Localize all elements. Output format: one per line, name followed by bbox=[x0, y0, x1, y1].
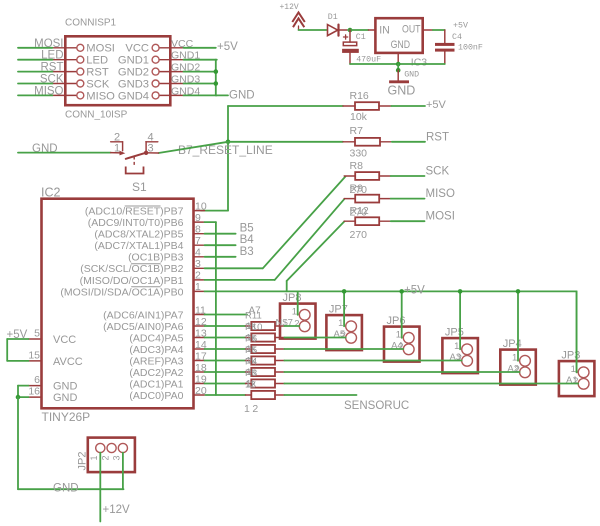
wire PB3 to label B3 bbox=[205, 256, 236, 258]
IC IC2 value label TINY26P bbox=[42, 410, 91, 424]
junction +5V JP7 bbox=[342, 289, 347, 294]
overlap value 1k ghosts bbox=[246, 321, 256, 390]
switch S1 pin number 3 bbox=[148, 143, 154, 155]
svg-text:3: 3 bbox=[112, 455, 122, 460]
capacitor C1 negative plate bbox=[342, 49, 359, 53]
svg-text:(SCK/SCL/OC1B)PB2: (SCK/SCL/OC1B)PB2 bbox=[80, 263, 183, 275]
capacitor C1 bottom lead bbox=[349, 53, 351, 64]
net label +5V (rail) bbox=[404, 284, 425, 296]
connector JP7 pin 1 circle bbox=[346, 321, 357, 332]
svg-text:(MOSI/DI/SDA/OC1A)PB0: (MOSI/DI/SDA/OC1A)PB0 bbox=[60, 286, 183, 298]
svg-text:9: 9 bbox=[195, 212, 201, 224]
small resistor row 7 bbox=[205, 394, 245, 396]
wire diagonal PB2 to R8 bbox=[263, 176, 346, 268]
CONNISP1 pin RST (left) bbox=[52, 68, 83, 75]
wire junction to GND symbol bbox=[397, 64, 399, 70]
wire D1 junction to IC3 IN bbox=[348, 29, 375, 31]
CONNISP1 pin GND4 (right) bbox=[152, 92, 183, 99]
svg-text:S1: S1 bbox=[132, 180, 147, 194]
svg-text:GND1: GND1 bbox=[118, 55, 149, 67]
svg-text:GND1: GND1 bbox=[171, 50, 200, 62]
IC2 pin 13 (ADC4)PA5 bbox=[129, 327, 206, 344]
connector JP5 pin 1 circle bbox=[462, 344, 473, 355]
IC2 pin 6 GND bbox=[29, 374, 78, 393]
net label GND1 bbox=[171, 50, 200, 62]
svg-text:+5V: +5V bbox=[404, 284, 425, 296]
svg-text:(ADC0)PA0: (ADC0)PA0 bbox=[129, 390, 183, 402]
connector JP5 pin number 1 bbox=[454, 341, 459, 352]
svg-text:1: 1 bbox=[396, 330, 401, 341]
connector JP2 pin number 3 (rotated) bbox=[112, 455, 122, 460]
IC3 pin name IN bbox=[379, 25, 390, 37]
capacitor C4 bottom plate bbox=[435, 49, 455, 52]
IC2 pin 19 (ADC1)PA1 bbox=[129, 373, 206, 390]
net label GND4 bbox=[171, 85, 200, 97]
svg-text:LED: LED bbox=[41, 50, 63, 62]
small resistor row 4 bbox=[205, 360, 246, 362]
connector JP6 name label bbox=[387, 315, 406, 327]
net label +12V (bottom) bbox=[103, 504, 131, 516]
connector JP7 pin number 1 bbox=[338, 318, 343, 329]
connector JP6 pin number 1 bbox=[396, 330, 401, 341]
svg-text:R7: R7 bbox=[350, 125, 364, 137]
svg-text:2: 2 bbox=[195, 270, 201, 282]
switch S1 pin 2 contact bbox=[111, 142, 123, 151]
connector JP4 pin number 2 bbox=[515, 365, 520, 376]
svg-text:MOSI: MOSI bbox=[34, 38, 63, 50]
small resistor body row 5 bbox=[246, 368, 285, 376]
connector JP7 pin number 2 bbox=[341, 330, 346, 341]
IC2 pin 17 (AREF)PA3 bbox=[129, 350, 206, 367]
svg-text:GND4: GND4 bbox=[171, 85, 200, 97]
connector JP8 pin 2 circle bbox=[299, 321, 310, 332]
IC3 GND pin stub bbox=[397, 53, 399, 63]
CONNISP1 pin name GND4 bbox=[118, 90, 149, 102]
connector JP2 name label (rotated) bbox=[77, 452, 89, 471]
wire +5V to VCC/AVCC bbox=[7, 339, 28, 361]
connector JP2 pin 2 circle bbox=[107, 443, 116, 452]
svg-text:1: 1 bbox=[338, 318, 343, 329]
wire PB0 rail (+5V rail) bbox=[205, 290, 577, 292]
wire R12 to label MOSI bbox=[391, 220, 425, 222]
wire sensor resistor output SENSORUC bbox=[284, 394, 356, 396]
wire IC2 GND down to JP2 GND bbox=[18, 397, 124, 489]
svg-text:JP2: JP2 bbox=[77, 452, 89, 471]
svg-text:GND: GND bbox=[404, 71, 419, 80]
resistor R9 body bbox=[344, 195, 391, 203]
net label B4 bbox=[240, 234, 255, 246]
switch S1 pin 4 contact bbox=[146, 142, 158, 151]
connector JP3 name label bbox=[561, 350, 580, 362]
svg-text:1: 1 bbox=[89, 455, 99, 460]
small resistor bottom value 12 bbox=[244, 403, 261, 415]
svg-text:GND: GND bbox=[388, 84, 416, 98]
wire reset junction to R7 bbox=[228, 141, 343, 143]
svg-text:OUT: OUT bbox=[402, 24, 421, 36]
svg-text:GND4: GND4 bbox=[118, 90, 149, 102]
small resistor label R3 bbox=[245, 368, 257, 379]
small resistor body row 1 bbox=[246, 322, 285, 330]
svg-text:MISO: MISO bbox=[34, 85, 63, 97]
net label SCK bbox=[40, 74, 64, 86]
svg-text:270: 270 bbox=[350, 229, 368, 241]
net label GND (switch) bbox=[32, 143, 58, 155]
net label SENSORUC bbox=[344, 400, 409, 412]
CONNISP1 pin name GND3 bbox=[118, 78, 149, 90]
net label +5V (ISP) bbox=[217, 41, 238, 53]
net label LED bbox=[41, 50, 63, 62]
svg-text:MOSI: MOSI bbox=[426, 211, 455, 223]
svg-text:12: 12 bbox=[244, 403, 261, 415]
wire PB6 vertical to sensor resistor bbox=[205, 222, 216, 395]
wire JP8 pin2 bbox=[284, 325, 299, 327]
CONNISP1 pin SCK (left) bbox=[52, 80, 83, 87]
resistor R8 value label bbox=[350, 184, 368, 196]
CONNISP1 pin LED (left) bbox=[52, 56, 83, 63]
net label A3 bbox=[450, 352, 462, 363]
net label B5 bbox=[240, 223, 254, 235]
svg-text:RST: RST bbox=[86, 67, 109, 79]
net label A4 bbox=[391, 341, 403, 352]
IC2 pin 1 (MOSI/DI/SDA/OC1A)PB0 bbox=[60, 281, 204, 298]
connector JP5 pin 2 circle bbox=[462, 355, 473, 366]
wire PB2 to diagonal bbox=[205, 267, 263, 269]
net label A5 bbox=[334, 329, 346, 340]
IC2 pin 2 (MISO/DO/OC1A)PB1 bbox=[80, 270, 205, 287]
connector JP3 body bbox=[559, 361, 595, 396]
junction GND2 bbox=[214, 69, 219, 74]
wire reset vertical (R16 to junction) bbox=[227, 106, 229, 142]
connector JP2 body bbox=[88, 438, 135, 473]
wire JP6 pin2 bbox=[284, 348, 403, 350]
svg-text:(ADC10/RESET)PB7: (ADC10/RESET)PB7 bbox=[85, 206, 184, 218]
net label A7 bbox=[205, 306, 262, 317]
GND symbol net text (green) bbox=[404, 71, 419, 80]
wire +5V feed JP3 bbox=[576, 291, 578, 372]
connector JP4 pin 1 circle bbox=[520, 355, 531, 366]
svg-text:B7_RESET_LINE: B7_RESET_LINE bbox=[178, 143, 273, 157]
CONNISP1 pin name SCK bbox=[86, 78, 110, 90]
wire GND to S1 bbox=[18, 152, 111, 154]
wire JP3 pin2 bbox=[284, 383, 578, 385]
connector JP5 body bbox=[442, 338, 478, 373]
net label +5V (R16) bbox=[426, 99, 447, 111]
small resistor row 6 bbox=[205, 383, 246, 385]
net label RST bbox=[41, 62, 64, 74]
small resistor label 12 bbox=[245, 380, 256, 391]
wire diagonal PB1 to R9 bbox=[275, 199, 345, 280]
IC IC2 name label bbox=[41, 186, 61, 200]
connector JP6 pin number 2 bbox=[398, 342, 403, 353]
CONNISP1 pin name LED bbox=[86, 55, 108, 67]
svg-text:SCK: SCK bbox=[40, 74, 64, 86]
net label RST (right) bbox=[426, 131, 449, 143]
CONNISP1 pin name MOSI bbox=[86, 43, 115, 55]
connector JP3 pin number 2 bbox=[573, 376, 578, 387]
svg-text:1k: 1k bbox=[246, 344, 256, 355]
svg-text:(AREF)PA3: (AREF)PA3 bbox=[129, 355, 183, 367]
junction IC3 GND on rail bbox=[396, 62, 401, 67]
connector CONNISP1 name label bbox=[65, 18, 117, 29]
resistor R12 name label bbox=[350, 205, 369, 217]
small resistor row 3 bbox=[205, 348, 246, 350]
connector JP4 body bbox=[500, 350, 536, 385]
small resistor label R4 bbox=[245, 357, 257, 368]
svg-text:+12V: +12V bbox=[280, 3, 299, 12]
svg-text:(OC1B)PB3: (OC1B)PB3 bbox=[128, 252, 184, 264]
junction +5V JP4 bbox=[516, 289, 521, 294]
wire GND3 bbox=[184, 83, 217, 85]
net label GND (bottom) bbox=[53, 483, 79, 495]
svg-text:IC3: IC3 bbox=[411, 56, 428, 68]
svg-text:1: 1 bbox=[454, 341, 459, 352]
ground symbol lead bbox=[397, 70, 399, 80]
net label SCK bbox=[426, 166, 450, 178]
svg-text:+5V: +5V bbox=[453, 22, 468, 31]
connector JP2 pin 1 circle bbox=[96, 443, 105, 452]
svg-text:SENSORUC: SENSORUC bbox=[344, 400, 409, 412]
wire S1 pin3 to reset junction bbox=[146, 142, 228, 153]
small resistor body row 3 bbox=[246, 345, 285, 353]
svg-text:RST: RST bbox=[41, 62, 64, 74]
wire JP2 pin3 to GND bbox=[122, 453, 124, 490]
IC2 pin 11 (ADC6/AIN1)PA7 bbox=[103, 304, 206, 321]
connector JP4 pin number 1 bbox=[512, 353, 517, 364]
switch S1 pin number 4 bbox=[148, 132, 154, 144]
wire GND bus vertical bbox=[215, 60, 217, 96]
net label GND (ISP) bbox=[229, 90, 255, 102]
junction +5V JP6 bbox=[399, 289, 404, 294]
connector JP8 body bbox=[280, 304, 316, 339]
connector CONNISP1 body bbox=[65, 36, 170, 105]
connector JP7 body bbox=[326, 315, 362, 350]
svg-text:(ADC5/AIN0)PA6: (ADC5/AIN0)PA6 bbox=[103, 321, 183, 333]
wire diagonal rail to R10 bbox=[287, 221, 345, 291]
wire +5V feed JP5 bbox=[459, 291, 461, 349]
CONNISP1 pin GND2 (right) bbox=[152, 68, 183, 75]
svg-text:(ADC9/INT0/T0)PB6: (ADC9/INT0/T0)PB6 bbox=[88, 217, 184, 229]
svg-text:6: 6 bbox=[34, 374, 40, 386]
svg-text:1k: 1k bbox=[246, 321, 256, 332]
CONNISP1 pin name RST bbox=[86, 67, 109, 79]
net label A1 bbox=[566, 375, 578, 386]
svg-text:(ADC6/AIN1)PA7: (ADC6/AIN1)PA7 bbox=[103, 309, 183, 321]
svg-text:1: 1 bbox=[512, 353, 517, 364]
IC2 pin 8 (ADC8/XTAL2)PB5 bbox=[94, 224, 204, 241]
svg-text:+12V: +12V bbox=[103, 504, 131, 516]
svg-text:1k: 1k bbox=[246, 356, 256, 367]
switch S1 pin number 1 bbox=[114, 143, 120, 155]
capacitor C1 top lead bbox=[349, 30, 351, 42]
small resistor label R10 bbox=[245, 322, 262, 333]
wire IC3 OUT to C4 bbox=[423, 30, 445, 43]
connector JP5 name label bbox=[445, 327, 464, 339]
small resistor row 2 bbox=[205, 337, 246, 339]
small resistor row 1 bbox=[205, 325, 246, 327]
wire +5V rail to R16 bbox=[228, 105, 343, 107]
IC2 pin 20 (ADC0)PA0 bbox=[129, 385, 206, 402]
svg-text:16: 16 bbox=[28, 386, 40, 398]
wire +5V rail end down to JP3 bbox=[576, 291, 578, 372]
svg-text:1: 1 bbox=[571, 364, 576, 375]
svg-text:(MISO/DO/OC1A)PB1: (MISO/DO/OC1A)PB1 bbox=[80, 275, 184, 287]
wire R8 to label SCK bbox=[391, 175, 425, 177]
connector JP7 name label bbox=[329, 304, 348, 316]
net label +5V (IC2 VCC) bbox=[7, 329, 28, 341]
svg-text:3: 3 bbox=[195, 258, 201, 270]
wire +5V feed JP6 bbox=[401, 291, 403, 337]
svg-text:RST: RST bbox=[426, 131, 449, 143]
IC2 pin 12 (ADC5/AIN0)PA6 bbox=[103, 316, 207, 333]
svg-text:8: 8 bbox=[195, 224, 201, 236]
svg-text:TINY26P: TINY26P bbox=[42, 410, 91, 424]
connector JP5 pin number 2 bbox=[457, 353, 462, 364]
svg-text:B3: B3 bbox=[240, 246, 254, 258]
svg-text:1k: 1k bbox=[246, 379, 256, 390]
IC3 pin name OUT bbox=[402, 24, 421, 36]
junction GND3 bbox=[214, 81, 219, 86]
svg-text:GND: GND bbox=[53, 392, 78, 404]
svg-text:CONNISP1: CONNISP1 bbox=[65, 18, 117, 29]
small resistor label R11 bbox=[245, 311, 262, 322]
svg-text:7: 7 bbox=[195, 235, 201, 247]
switch S1 pin number 2 bbox=[114, 132, 120, 144]
svg-text:AVCC: AVCC bbox=[53, 356, 83, 368]
wire GND1 bbox=[184, 59, 217, 61]
IC IC2 body bbox=[42, 199, 194, 409]
svg-text:GND: GND bbox=[229, 90, 255, 102]
resistor R8 body bbox=[344, 172, 391, 180]
net label +5V (regulator out) bbox=[453, 22, 468, 31]
svg-text:1: 1 bbox=[114, 143, 120, 155]
wire to CONNISP1 MISO bbox=[18, 94, 52, 96]
svg-text:15: 15 bbox=[28, 350, 40, 362]
svg-text:470uF: 470uF bbox=[356, 55, 381, 64]
ground symbol label GND bbox=[388, 84, 416, 98]
CONNISP1 pin name GND2 bbox=[118, 67, 149, 79]
IC2 pin 7 (ADC7/XTAL1)PB4 bbox=[94, 235, 204, 252]
svg-text:C1: C1 bbox=[356, 33, 366, 42]
connector JP2 pin number 1 (rotated) bbox=[89, 455, 99, 460]
svg-text:B5: B5 bbox=[240, 223, 254, 235]
svg-text:330: 330 bbox=[350, 148, 368, 160]
svg-text:CONN_10ISP: CONN_10ISP bbox=[65, 110, 128, 121]
wire reset junction down to PB7 bbox=[227, 142, 229, 211]
wire JP2 pin1 to +12V bbox=[99, 453, 101, 522]
svg-text:MISO: MISO bbox=[86, 90, 115, 102]
svg-text:SCK: SCK bbox=[86, 78, 110, 90]
junction D1/C1 bbox=[348, 28, 353, 33]
svg-text:R12: R12 bbox=[350, 205, 369, 217]
svg-text:VCC: VCC bbox=[53, 334, 76, 346]
IC2 pin 3 (SCK/SCL/OC1B)PB2 bbox=[80, 258, 204, 275]
IC2 pin 5 VCC bbox=[29, 328, 77, 347]
svg-text:R8: R8 bbox=[350, 160, 364, 172]
svg-text:R9: R9 bbox=[350, 183, 364, 195]
junction reset line bbox=[226, 140, 231, 145]
wire JP5 pin2 bbox=[284, 360, 461, 362]
svg-text:10k: 10k bbox=[350, 111, 368, 123]
svg-text:GND3: GND3 bbox=[118, 78, 149, 90]
supply +12V arrow symbol bbox=[292, 12, 305, 30]
svg-text:R11: R11 bbox=[245, 311, 262, 322]
CONNISP1 pin name VCC bbox=[125, 43, 149, 55]
svg-text:R16: R16 bbox=[350, 90, 369, 102]
resistor R16 body bbox=[343, 102, 391, 110]
capacitor C1 name label bbox=[356, 33, 366, 42]
net label MISO bbox=[426, 188, 455, 200]
svg-text:LED: LED bbox=[86, 55, 108, 67]
svg-text:GND2: GND2 bbox=[171, 62, 200, 74]
resistor R16 name label bbox=[350, 90, 369, 102]
wire JP7 pin2 bbox=[284, 337, 345, 339]
svg-text:(ADC8/XTAL2)PB5: (ADC8/XTAL2)PB5 bbox=[94, 229, 183, 241]
small resistor body row 4 bbox=[246, 356, 285, 364]
connector JP6 pin 2 circle bbox=[403, 344, 414, 355]
small resistor label R5 bbox=[245, 345, 257, 356]
connector JP3 pin 1 circle bbox=[578, 367, 589, 378]
resistor R7 body bbox=[343, 138, 392, 146]
wire JP4 pin2 bbox=[284, 371, 519, 373]
CONNISP1 pin GND3 (right) bbox=[152, 80, 183, 87]
svg-text:GND: GND bbox=[53, 381, 78, 393]
wire to CONNISP1 LED bbox=[18, 59, 52, 61]
wire +12V to D1 bbox=[299, 29, 327, 31]
CONNISP1 pin name MISO bbox=[86, 90, 115, 102]
resistor R9 value label bbox=[350, 207, 368, 219]
net label A2 bbox=[507, 364, 519, 375]
connector JP8 pin number 1 bbox=[292, 307, 297, 318]
capacitor C1 value 470uF bbox=[356, 55, 381, 64]
connector JP3 pin 2 circle bbox=[578, 378, 589, 389]
switch S1 name label bbox=[132, 180, 147, 194]
svg-text:10: 10 bbox=[195, 200, 207, 212]
wire +5V feed JP7 bbox=[343, 291, 345, 326]
diode D1 symbol bbox=[328, 25, 348, 36]
CONNISP1 pin GND1 (right) bbox=[152, 56, 183, 63]
svg-text:1k: 1k bbox=[246, 333, 256, 344]
CONNISP1 pin name GND1 bbox=[118, 55, 149, 67]
svg-text:1: 1 bbox=[195, 281, 201, 293]
net label MOSI bbox=[426, 211, 455, 223]
junction IC2 GND bbox=[16, 395, 21, 400]
switch S1 pin 1 stub bbox=[111, 151, 126, 156]
IC2 pin 14 (ADC3)PA4 bbox=[129, 339, 206, 356]
net label GND2 bbox=[171, 62, 200, 74]
net label N$7 bbox=[276, 318, 293, 329]
capacitor C4 bottom lead bbox=[444, 52, 446, 64]
net label MOSI bbox=[34, 38, 63, 50]
wire R7 to RST bbox=[392, 141, 425, 143]
svg-text:1: 1 bbox=[292, 307, 297, 318]
connector JP8 name label bbox=[283, 292, 302, 304]
svg-text:IN: IN bbox=[379, 25, 390, 37]
wire PB5 to label B5 bbox=[205, 233, 236, 235]
svg-text:D1: D1 bbox=[328, 13, 338, 22]
net label B7_RESET_LINE bbox=[178, 143, 273, 157]
svg-text:+5V: +5V bbox=[217, 41, 238, 53]
wire PB4 to label B4 bbox=[205, 244, 236, 246]
switch S1 lever bbox=[126, 151, 149, 159]
connector JP8 pin number 2 bbox=[294, 319, 299, 330]
capacitor C4 name label bbox=[452, 33, 462, 42]
resistor R12 value label bbox=[350, 229, 368, 241]
connector JP3 pin number 1 bbox=[571, 364, 576, 375]
connector JP7 pin 2 circle bbox=[346, 332, 357, 343]
svg-text:GND3: GND3 bbox=[171, 74, 200, 86]
capacitor C1 positive plate bbox=[343, 42, 356, 46]
wire to CONNISP1 MOSI bbox=[18, 47, 52, 49]
